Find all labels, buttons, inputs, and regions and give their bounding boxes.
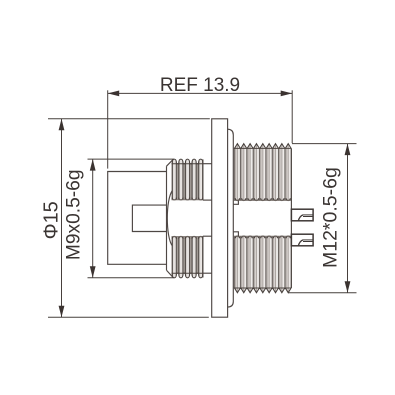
svg-text:REF 13.9: REF 13.9 bbox=[160, 75, 240, 96]
svg-text:M12*0.5-6g: M12*0.5-6g bbox=[320, 167, 342, 268]
svg-text:Φ15: Φ15 bbox=[41, 201, 63, 239]
svg-text:M9x0.5-6g: M9x0.5-6g bbox=[64, 169, 85, 260]
